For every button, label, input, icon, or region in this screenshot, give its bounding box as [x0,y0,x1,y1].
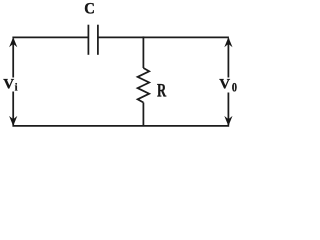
svg-text:R: R [157,81,166,101]
node left-top arrowhead (up) [9,37,17,47]
svg-text:V: V [3,77,14,93]
node right-bottom arrowhead (down) [224,116,232,126]
svg-text:C: C [84,1,95,17]
wire left Vi arrow shaft [12,39,14,126]
wire right V0 arrow shaft [227,39,229,126]
wire resistor top lead [142,36,144,68]
node left-bottom arrowhead (down) [9,116,17,126]
label V0 background [219,78,239,93]
svg-text:i: i [15,82,18,93]
wire top-left segment [12,36,88,38]
wire resistor bottom lead [142,103,144,126]
svg-text:V: V [219,77,230,93]
resistor R zigzag [138,68,150,103]
label Vi background [3,78,20,92]
capacitor C left plate [87,25,89,55]
wire bottom [12,125,229,127]
capacitor C right plate [97,25,99,55]
node right-top arrowhead (up) [224,37,232,47]
svg-text:0: 0 [232,82,237,95]
wire top-right segment [98,36,229,38]
